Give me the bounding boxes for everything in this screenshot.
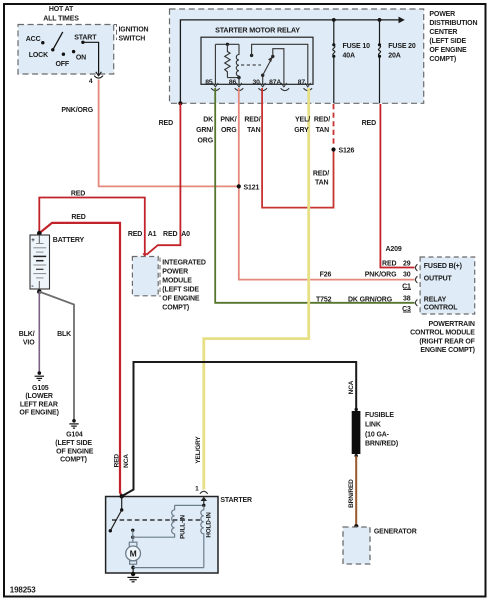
svg-text:HOLD-IN: HOLD-IN (206, 512, 213, 538)
wire RED/TAN fused dashed from PDC to S126 (333, 104, 335, 147)
ground G104 label (55, 432, 93, 464)
svg-text:RED/: RED/ (314, 117, 330, 124)
PCM internal labels (424, 263, 462, 311)
svg-text:ORG: ORG (221, 127, 237, 134)
svg-text:ON: ON (76, 54, 86, 61)
svg-text:COMPT): COMPT) (60, 457, 87, 464)
svg-text:HOT AT: HOT AT (49, 6, 74, 13)
battery negative terminal junction (37, 289, 42, 294)
svg-text:30: 30 (253, 79, 261, 86)
battery wire RED upper to IPM A1 (39, 198, 145, 254)
wire from START to ignition pin 4 (83, 42, 99, 71)
svg-text:BLK/: BLK/ (19, 331, 35, 338)
svg-text:RED: RED (113, 454, 120, 468)
wire motor return to hold-in (133, 567, 204, 569)
wire BRN/RED fusible link to generator (355, 456, 357, 526)
svg-text:RED: RED (362, 120, 376, 127)
svg-text:(LEFT SIDE: (LEFT SIDE (162, 287, 199, 294)
pull-in coil (172, 505, 175, 533)
fusible link F1 (352, 408, 361, 458)
starter motor relay box K1 (201, 37, 313, 84)
PCM connector C1 label (402, 283, 411, 290)
wire label YEL/GRY (294, 117, 310, 134)
svg-text:LINK: LINK (365, 421, 381, 428)
relay coil top link (215, 43, 239, 45)
svg-text:DK: DK (203, 117, 213, 124)
hold-in coil (201, 505, 204, 567)
svg-text:COMPT): COMPT) (429, 56, 456, 63)
wire RED from PDC feed down to IPM A0 (146, 103, 180, 255)
svg-text:BRN/RED): BRN/RED) (365, 441, 398, 448)
splice S121 (237, 184, 241, 188)
svg-text:DK GRN/ORG: DK GRN/ORG (348, 297, 393, 304)
wire contact to pull-in coil (133, 534, 175, 537)
relay coil bottom link (227, 77, 239, 79)
svg-text:OF ENGINE): OF ENGINE) (19, 410, 58, 417)
ignition pin 4 connector cup (94, 76, 103, 79)
junction pull-in hold-in (202, 504, 205, 507)
ignition switch label bracket (114, 25, 117, 41)
svg-text:BATTERY: BATTERY (53, 237, 85, 244)
svg-text:POWER: POWER (429, 11, 455, 18)
PCM pin 38 connector (415, 300, 417, 307)
svg-text:PNK/: PNK/ (220, 117, 236, 124)
PCM module label (410, 321, 476, 354)
svg-text:(10 GA-: (10 GA- (365, 431, 390, 438)
svg-text:ENGINE COMPT): ENGINE COMPT) (420, 347, 474, 354)
svg-text:87A: 87A (269, 79, 281, 86)
relay terminal connector cups (211, 88, 312, 90)
svg-text:GRN/: GRN/ (196, 127, 213, 134)
svg-text:FUSED B(+): FUSED B(+) (424, 263, 462, 270)
wire label RED/TAN (244, 117, 260, 134)
wire pull-in top to hold-in (175, 504, 204, 506)
svg-text:OF ENGINE: OF ENGINE (429, 47, 467, 54)
svg-text:TAN: TAN (247, 127, 261, 134)
net label HOT AT ALL TIMES (43, 6, 79, 23)
svg-text:VIO: VIO (23, 339, 35, 346)
svg-text:GENERATOR: GENERATOR (374, 528, 417, 535)
ignition switch blade (53, 32, 63, 50)
wire BLK battery to G104 (39, 292, 74, 420)
svg-text:STARTER MOTOR RELAY: STARTER MOTOR RELAY (215, 26, 300, 35)
svg-text:(RIGHT REAR OF: (RIGHT REAR OF (419, 338, 475, 345)
fusible link label (365, 412, 398, 448)
svg-text:FUSE 10: FUSE 10 (343, 43, 371, 50)
junction motor to hold-in return (131, 566, 135, 570)
IPM label (162, 260, 206, 312)
svg-text:ACC: ACC (26, 36, 41, 43)
relay terminal arrows (213, 83, 311, 87)
wire label PNK/ORG (220, 117, 237, 134)
svg-text:38: 38 (403, 296, 411, 303)
svg-text:RED: RED (71, 214, 85, 221)
svg-text:RED: RED (159, 120, 173, 127)
junction at PDC bottom feed (178, 101, 182, 105)
fuse 10 40A (332, 20, 370, 103)
ignition switch contact START (74, 34, 97, 44)
starter hold-in entry arrow (201, 497, 207, 506)
svg-text:OFF: OFF (56, 61, 70, 68)
wire label RED/TAN (314, 117, 330, 134)
svg-text:(LOWER: (LOWER (25, 393, 53, 400)
svg-text:CONTROL MODULE: CONTROL MODULE (410, 330, 475, 337)
relay blade tip junction (271, 55, 274, 58)
integrated power module box (132, 257, 158, 296)
svg-text:M: M (130, 549, 137, 559)
svg-text:BLK: BLK (57, 331, 71, 338)
starter case ground (127, 577, 138, 581)
svg-text:PNK/ORG: PNK/ORG (365, 271, 397, 278)
PCM pin 29 connector (415, 264, 417, 271)
svg-text:G104: G104 (66, 432, 83, 439)
svg-text:OF ENGINE: OF ENGINE (162, 296, 200, 303)
svg-text:DISTRIBUTION: DISTRIBUTION (429, 20, 477, 27)
svg-text:ORG: ORG (198, 137, 214, 144)
svg-text:T752: T752 (316, 297, 332, 304)
svg-text:S126: S126 (339, 147, 355, 154)
svg-text:A1: A1 (148, 231, 157, 238)
wire PNK/ORG from ignition switch to splice S121 (99, 80, 237, 187)
junction bus to fuse 10 (332, 18, 336, 22)
relay contact to terminal 87 (252, 44, 308, 84)
IPM pin labels RED A1 RED A0 (128, 231, 190, 238)
PCM connector C3 label (402, 306, 411, 313)
svg-text:G105: G105 (32, 385, 49, 392)
ground G105 label (19, 385, 58, 417)
ground G105 (35, 371, 44, 380)
svg-text:FUSE 20: FUSE 20 (388, 43, 416, 50)
starter box M1 (106, 497, 218, 574)
svg-text:1: 1 (195, 485, 199, 492)
svg-text:BRN/RED: BRN/RED (348, 479, 355, 508)
svg-text:RED: RED (382, 260, 396, 267)
IPM label bracket (159, 258, 161, 298)
starter ground junction (131, 572, 135, 576)
svg-text:STARTER: STARTER (220, 497, 252, 504)
svg-text:OUTPUT: OUTPUT (424, 276, 453, 283)
relay coil L1 (236, 44, 239, 84)
PDC label (429, 11, 477, 63)
wire RED/TAN relay 30 to splice S126 (262, 88, 333, 208)
PDC bus wire (180, 20, 399, 103)
wire DK GRN/ORG relay 85 to PCM 38 (215, 88, 414, 303)
svg-text:CENTER: CENTER (429, 29, 457, 36)
svg-text:A0: A0 (181, 231, 190, 238)
ignition switch contact ACC (26, 36, 45, 44)
wire label DK GRN/ORG (196, 117, 214, 145)
svg-text:POWERTRAIN: POWERTRAIN (428, 321, 474, 328)
svg-text:GRY: GRY (294, 127, 309, 134)
ignition switch contact LOCK (29, 48, 55, 59)
svg-text:87: 87 (298, 79, 306, 86)
wire RED fuse 20 to PCM 29 (380, 104, 414, 268)
relay switch blade (263, 56, 273, 75)
svg-text:PNK/ORG: PNK/ORG (61, 107, 93, 114)
svg-text:TAN: TAN (316, 127, 330, 134)
svg-text:NCA: NCA (348, 380, 355, 394)
wire BLK NCA starter to fusible link (122, 362, 357, 496)
svg-text:ALL TIMES: ALL TIMES (43, 16, 79, 23)
svg-text:NCA: NCA (123, 454, 130, 468)
svg-text:YEL/GRY: YEL/GRY (195, 436, 202, 464)
relay top junction (226, 43, 229, 46)
svg-text:RED: RED (163, 231, 177, 238)
svg-text:YEL/: YEL/ (295, 117, 310, 124)
wire motor to case ground (132, 568, 134, 574)
PDC bus arrowhead (399, 17, 405, 24)
svg-text:20A: 20A (388, 52, 400, 59)
svg-text:29: 29 (403, 260, 411, 267)
svg-text:(LEFT SIDE: (LEFT SIDE (429, 38, 466, 45)
powertrain control module box (420, 257, 475, 314)
svg-text:MODULE: MODULE (162, 278, 192, 285)
svg-text:198253: 198253 (10, 586, 36, 595)
svg-text:RED/: RED/ (313, 171, 329, 178)
ignition switch box SW1 (18, 25, 114, 75)
svg-text:OF ENGINE: OF ENGINE (56, 448, 94, 455)
junction bus to fuse 20 (378, 18, 382, 22)
IPM A1 entry arrowhead (142, 253, 147, 257)
starter solenoid dashed link (112, 519, 201, 521)
fuse 20 20A (378, 20, 416, 103)
svg-text:F26: F26 (320, 271, 332, 278)
relay blade tip to terminal 87A (273, 49, 284, 85)
wire label RED/TAN below S126 (313, 171, 329, 187)
svg-text:85: 85 (205, 79, 213, 86)
ignition pin 4 exit arrow (96, 71, 102, 76)
ignition switch label (119, 26, 149, 42)
battery BT1 (30, 235, 50, 290)
svg-text:RED: RED (71, 190, 85, 197)
generator terminal junction (354, 524, 358, 528)
power distribution center box (170, 9, 424, 103)
svg-text:POWER: POWER (162, 269, 188, 276)
starter solenoid switch (109, 496, 124, 532)
svg-text:86: 86 (229, 79, 237, 86)
relay switch pivot on terminal 30 (261, 74, 264, 77)
relay resistor (225, 44, 230, 77)
svg-text:SWITCH: SWITCH (119, 36, 146, 43)
wire YEL/GRY relay 87 to starter (204, 88, 309, 490)
svg-text:START: START (74, 34, 97, 41)
generator box G1 (343, 527, 370, 564)
ground G104 (69, 419, 78, 428)
svg-text:INTEGRATED: INTEGRATED (162, 260, 206, 267)
battery positive terminal junction (37, 231, 42, 236)
svg-text:TAN: TAN (315, 179, 329, 186)
relay blade arrowhead (268, 56, 273, 62)
relay bottom junction (237, 76, 240, 79)
svg-text:RED: RED (128, 231, 142, 238)
svg-text:4: 4 (89, 78, 93, 85)
relay wire to terminal 85 (214, 44, 216, 84)
svg-text:40A: 40A (343, 52, 355, 59)
ignition switch contact ON (72, 50, 86, 62)
ignition switch contact OFF (56, 53, 70, 68)
relay fixed contact 87 (250, 54, 253, 57)
svg-text:CONTROL: CONTROL (424, 305, 458, 312)
battery wire RED lower to starter (39, 223, 121, 496)
wire PNK/ORG relay 86 to PCM 30 (239, 88, 415, 280)
wire BLK/VIO battery to G105 (38, 292, 40, 372)
starter connector 1 cup (200, 491, 208, 494)
svg-text:LEFT REAR: LEFT REAR (20, 401, 58, 408)
svg-text:A209: A209 (385, 246, 401, 253)
starter motor M (126, 537, 141, 567)
svg-text:(LEFT SIDE: (LEFT SIDE (55, 440, 92, 447)
starter feed junction (120, 494, 124, 498)
relay coil to switch dashed link (241, 64, 261, 66)
svg-text:FUSIBLE: FUSIBLE (365, 412, 394, 419)
PCM pin 30 connector (415, 276, 417, 283)
starter motor contact junctions (131, 529, 134, 539)
svg-text:RED/: RED/ (244, 117, 260, 124)
svg-text:S121: S121 (244, 184, 260, 191)
wire label BLK/VIO (19, 331, 35, 346)
svg-text:IGNITION: IGNITION (119, 26, 149, 33)
svg-text:RELAY: RELAY (424, 297, 447, 304)
svg-text:30: 30 (403, 271, 411, 278)
splice S126 (331, 147, 335, 151)
svg-text:COMPT): COMPT) (162, 305, 189, 312)
svg-text:LOCK: LOCK (29, 52, 48, 59)
relay terminal 30 stem (262, 75, 264, 84)
svg-text:PULL-IN: PULL-IN (179, 515, 186, 539)
